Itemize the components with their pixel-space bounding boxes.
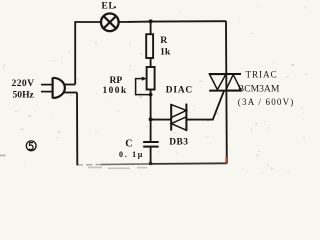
svg-text:0. 1μ: 0. 1μ bbox=[119, 150, 144, 159]
wire diac to gate corner and diagonal to triac gate bbox=[186, 91, 224, 120]
svg-text:50Hz: 50Hz bbox=[13, 89, 35, 100]
label 0.1u bbox=[119, 150, 144, 159]
label 1k bbox=[160, 46, 171, 57]
wire capacitor bottom to bottom rail bbox=[150, 147, 152, 164]
label R bbox=[160, 35, 168, 46]
wire from top node down to resistor R bbox=[150, 21, 152, 34]
label EL bbox=[102, 1, 117, 11]
potentiometer RP wiper arrow and tie-down wire bbox=[136, 77, 151, 95]
svg-text:RP: RP bbox=[110, 76, 123, 86]
label 220V bbox=[12, 78, 35, 89]
label RP bbox=[110, 76, 123, 86]
plug prong lower bbox=[41, 91, 53, 93]
wire top left from lamp to left corner bbox=[75, 21, 101, 23]
resistor R (1k) bbox=[146, 34, 153, 58]
junction dot wiper to branch bbox=[149, 93, 153, 97]
capacitor C (0.1u) plates bbox=[143, 142, 158, 147]
svg-text:DB3: DB3 bbox=[169, 138, 188, 148]
svg-text:TRIAC: TRIAC bbox=[246, 69, 278, 79]
label DIAC bbox=[166, 85, 193, 95]
wire node to diac bbox=[151, 119, 172, 121]
wire right vertical (top corner through triac to bottom corner) bbox=[225, 21, 228, 163]
wire plug upper terminal to left rail bbox=[64, 84, 75, 86]
label BCM3AM bbox=[238, 83, 280, 94]
svg-text:(3A / 600V): (3A / 600V) bbox=[238, 97, 295, 107]
plug prong upper bbox=[41, 84, 53, 86]
svg-text:100k: 100k bbox=[103, 86, 128, 96]
svg-text:1k: 1k bbox=[160, 46, 171, 57]
triac (BCM3AM) bbox=[209, 74, 241, 91]
label (3A/600V) bbox=[238, 97, 295, 107]
figure number 5 (circled) bbox=[26, 141, 36, 151]
scan artifact gray smudges along bottom bbox=[88, 167, 147, 170]
wire plug lower terminal to lower left rail bbox=[64, 92, 77, 94]
diac DB3 bbox=[171, 104, 186, 131]
wire left vertical upper (corner down to plug upper terminal) bbox=[74, 21, 76, 84]
junction blob capacitor to bottom rail bbox=[149, 162, 153, 166]
AC plug body (220V mains plug symbol) bbox=[53, 78, 65, 99]
label TRIAC bbox=[246, 69, 278, 79]
wire R to RP bbox=[150, 58, 152, 67]
wire left vertical lower (plug lower terminal down to bottom rail) bbox=[76, 93, 78, 166]
wire RP bottom to node bbox=[150, 90, 152, 120]
paper grain speckle bbox=[2, 4, 307, 173]
lamp EL (circle with X) bbox=[101, 13, 119, 31]
label C bbox=[125, 139, 132, 150]
node junction dot at top (lamp line / R branch) bbox=[149, 19, 153, 23]
scan artifact red mark bottom right corner bbox=[225, 157, 227, 164]
wire bottom (bottom rail) bbox=[77, 163, 227, 165]
svg-text:C: C bbox=[125, 139, 132, 150]
wire top from lamp right to top-right corner bbox=[119, 20, 227, 23]
svg-text:EL: EL bbox=[102, 1, 116, 11]
label 50Hz bbox=[13, 89, 35, 100]
scan artifact dash left margin bbox=[0, 155, 6, 157]
potentiometer RP (100k) body bbox=[147, 67, 155, 90]
label 100k bbox=[103, 86, 128, 96]
svg-text:BCM3AM: BCM3AM bbox=[238, 83, 280, 94]
svg-text:DIAC: DIAC bbox=[166, 85, 193, 95]
label DB3 bbox=[169, 138, 188, 148]
wire node to capacitor top plate bbox=[150, 119, 152, 141]
node junction dot (RC node / diac branch) bbox=[149, 117, 153, 121]
svg-text:R: R bbox=[160, 35, 168, 46]
svg-text:220V: 220V bbox=[12, 78, 35, 89]
